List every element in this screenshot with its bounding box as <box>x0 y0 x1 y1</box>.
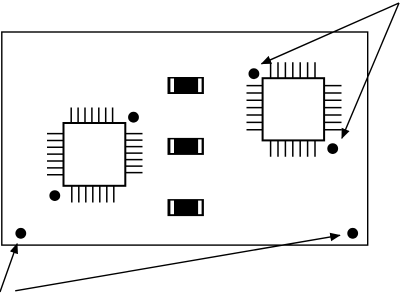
IC U1 left pins <box>47 134 64 175</box>
IC U2 left pins <box>247 86 263 130</box>
resistor R2 <box>168 138 204 155</box>
callout arrow to board bottom-right dot <box>15 235 340 290</box>
fiducial dot board bottom-right <box>347 228 358 239</box>
resistor R3 <box>168 199 204 216</box>
IC U1 (left QFP) top pins <box>71 108 112 124</box>
callout arrow to U2 top-left dot <box>261 3 399 64</box>
resistor R1 <box>168 77 204 94</box>
callout arrow to U2 bottom-right dot <box>342 3 399 138</box>
fiducial dot board bottom-left <box>15 228 26 239</box>
IC U1 bottom pins <box>72 186 114 203</box>
PCB board outline <box>2 32 368 245</box>
IC U1 right pins <box>125 134 142 173</box>
IC U2 bottom pins <box>271 140 315 156</box>
callout arrow to board bottom-left dot <box>0 244 17 292</box>
pad dot at U2 bottom-right <box>327 143 338 154</box>
IC U2 (right QFP) top pins <box>271 62 315 78</box>
pad dot at U2 top-left <box>249 68 260 79</box>
IC U1 body <box>64 123 126 186</box>
pad dot at U1 bottom-left <box>49 190 60 201</box>
pad dot at U1 top-right <box>128 112 139 123</box>
IC U2 right pins <box>324 86 341 130</box>
IC U2 body <box>263 78 325 140</box>
